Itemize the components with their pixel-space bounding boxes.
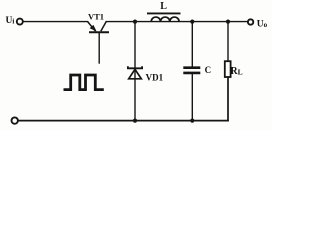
svg-text:Uo: Uo	[257, 20, 268, 30]
svg-text:VT1: VT1	[88, 12, 104, 22]
svg-text:C: C	[205, 65, 212, 75]
svg-text:RL: RL	[230, 66, 242, 77]
svg-text:VD1: VD1	[146, 72, 164, 82]
svg-text:L: L	[160, 1, 167, 12]
svg-text:Ui: Ui	[6, 16, 15, 26]
